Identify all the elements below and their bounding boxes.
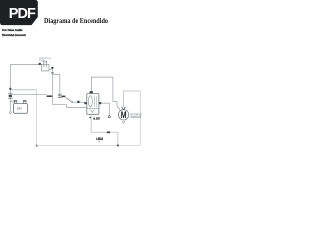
node at switch input (39, 63, 41, 65)
svg-text:PDF: PDF (9, 6, 36, 22)
svg-text:A MASA: A MASA (96, 137, 103, 141)
switch output terminal 2 (52, 72, 54, 74)
svg-text:ENCENDIDO: ENCENDIDO (39, 60, 46, 62)
wire: light return bus bottom (37, 145, 141, 147)
svg-text:M: M (121, 110, 127, 121)
wire: battery positive tap (10, 101, 14, 103)
wire: left vertical bus (9, 65, 11, 112)
wire: contact to coil primary (73, 101, 85, 103)
relay contact blade (66, 98, 73, 103)
wire: diagonal to motor (117, 106, 120, 110)
author line 2 (2, 33, 26, 37)
wire: upper battery feed to return bus (10, 89, 36, 91)
ignition coil T1 top terminal (90, 91, 93, 94)
svg-text:AL DIST: AL DIST (93, 117, 100, 121)
ground arrow below battery column (9, 112, 12, 114)
relay node dash left (47, 95, 53, 97)
coil left terminal (84, 102, 87, 104)
PDF badge (0, 0, 38, 25)
wire: light return bus right vertical (139, 91, 141, 146)
wire: lower battery feed to relay (11, 94, 47, 96)
node before coil (77, 101, 79, 103)
ignition switch S1 label (39, 58, 51, 62)
wire: terminal 1 drop (52, 69, 54, 96)
wire: coil ground run (91, 114, 118, 145)
coil right terminal (99, 102, 101, 104)
svg-text:Diagrama de Encendido: Diagrama de Encendido (44, 16, 108, 25)
bottom ground label (96, 137, 103, 142)
wire: relay lower path (53, 95, 87, 107)
node dash on ground run (107, 131, 110, 133)
node junction on left bus (9, 88, 11, 90)
node on return bus bottom left (36, 145, 38, 147)
node below coil (89, 117, 91, 119)
relay node dash right (61, 96, 65, 98)
motor top terminal (122, 107, 126, 110)
starter motor M1 (118, 110, 128, 122)
svg-text:ARRANQUE: ARRANQUE (130, 116, 141, 119)
wire: coil top loop to distributor column (91, 77, 120, 110)
title: Diagrama de Encendido (44, 16, 108, 25)
node at ground run bottom (117, 144, 119, 146)
condenser contact (108, 116, 110, 118)
wire: light return bus left vertical (36, 90, 38, 146)
author line 1 (2, 28, 23, 32)
switch output terminal 1 (51, 67, 53, 69)
battery B1 (14, 100, 28, 113)
coil bottom label (93, 117, 100, 121)
wire: top feed from battery column to ignition switch (10, 64, 41, 66)
motor label (130, 114, 142, 120)
wire: starter motor top loop (123, 91, 140, 107)
wire: switch to terminal 1 (49, 69, 51, 71)
relay coil ticks (58, 94, 62, 97)
svg-text:BATERIA: BATERIA (17, 107, 22, 110)
ignition coil T1 (87, 94, 99, 115)
svg-text:Prof. Nelson Castillo: Prof. Nelson Castillo (2, 28, 23, 32)
wire: terminal 2 jog to solenoid column (53, 74, 59, 97)
motor ground arrow (122, 121, 125, 123)
svg-text:Electricidad Automotriz: Electricidad Automotriz (2, 33, 26, 37)
fuse F1 on left bus (8, 93, 13, 98)
ignition switch S1 (42, 61, 49, 71)
wire: coil to condenser (101, 103, 109, 115)
